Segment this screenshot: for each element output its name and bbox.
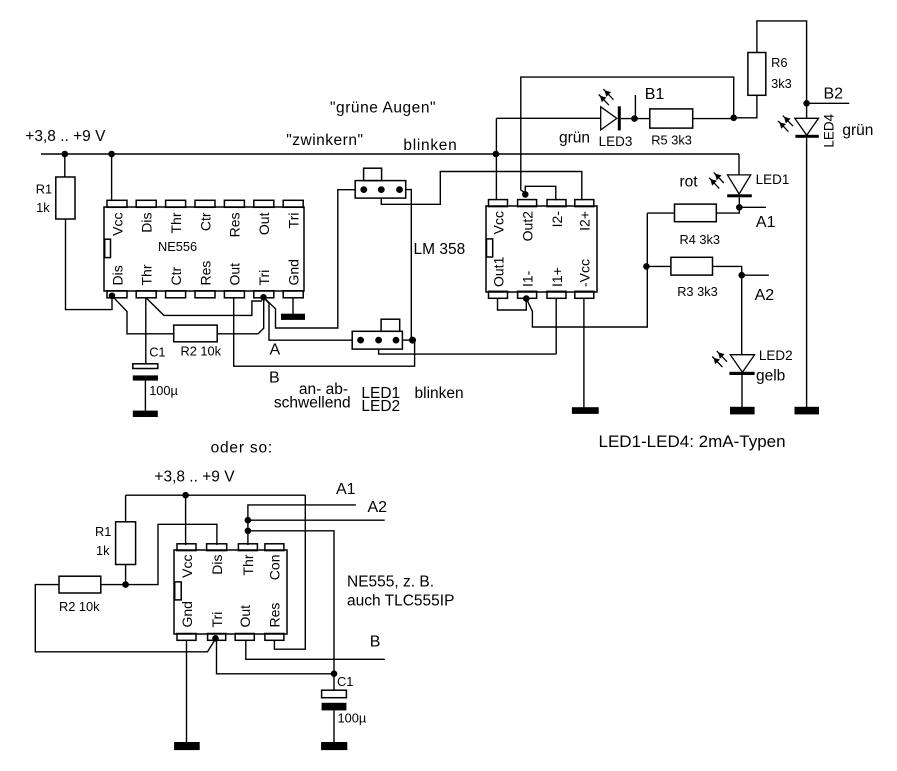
- label R1: [36, 182, 52, 197]
- label R6: [771, 55, 787, 70]
- label grün LED4: [842, 122, 873, 139]
- label R3 3k3: [677, 284, 718, 299]
- wire power rail lower: [126, 494, 306, 496]
- wire Thr riser to A1: [248, 505, 356, 545]
- svg-text:I1-: I1-: [519, 270, 535, 287]
- wire R6 top loop: [757, 21, 807, 119]
- svg-text:3k3: 3k3: [771, 76, 792, 91]
- wire R2 left to Tri: [35, 585, 215, 652]
- svg-text:A2: A2: [368, 499, 388, 516]
- label R4 3k3: [680, 232, 721, 247]
- label oder so:: [211, 440, 273, 457]
- label 1k: [36, 200, 50, 215]
- wire LED3 anode riser / LM358 Vcc: [495, 118, 497, 200]
- resistor R1 1k lower: [116, 522, 136, 565]
- node junction rail-Vcc LM358: [493, 151, 500, 158]
- resistor R2 10k lower: [59, 576, 101, 593]
- op-amp-timer IC U1 NE556 body: [104, 207, 304, 291]
- ground symbol C1 lower: [321, 742, 347, 750]
- svg-text:Thr: Thr: [240, 554, 256, 575]
- svg-text:C1: C1: [149, 344, 165, 359]
- wire Res to rail: [274, 495, 305, 649]
- jumper J2 pin dots: [357, 337, 399, 344]
- U3 bottom pin labels Gnd Tri Out Res: [179, 601, 283, 627]
- node junction Thr-C1: [245, 528, 252, 535]
- svg-text:Dis: Dis: [109, 265, 125, 285]
- svg-text:Vcc: Vcc: [109, 213, 125, 236]
- wire J2 middle pin to LM358 I1+: [379, 349, 557, 354]
- svg-text:Res: Res: [197, 261, 213, 286]
- label NE556: [158, 239, 197, 254]
- label grün LED3: [559, 130, 590, 147]
- ground symbol LED2: [730, 407, 755, 415]
- IC U1 bottom pins: [107, 291, 303, 298]
- wire node B2 stub: [807, 102, 850, 104]
- label LM 358: [414, 241, 466, 258]
- svg-text:I2-: I2-: [549, 211, 565, 228]
- node junction I1-: [523, 295, 530, 302]
- svg-text:Dis: Dis: [209, 555, 225, 575]
- svg-text:grün: grün: [559, 130, 590, 147]
- ground symbol -Vcc: [572, 407, 599, 414]
- wire node A2 line lower: [248, 519, 385, 521]
- svg-text:blinken: blinken: [403, 137, 457, 154]
- jumper J2 body: [352, 319, 402, 349]
- jumper J1 pin dots: [360, 186, 403, 193]
- svg-text:100µ: 100µ: [338, 711, 367, 726]
- label gelb: [756, 368, 785, 385]
- wire A2 node to LED2: [741, 275, 743, 355]
- svg-text:R2 10k: R2 10k: [181, 344, 222, 359]
- label node B2: [824, 86, 844, 103]
- wire Tri to node A: [264, 297, 353, 340]
- label LED1: [756, 172, 790, 187]
- svg-text:1k: 1k: [96, 543, 110, 558]
- capacitor C1 100µ upper: [133, 364, 158, 411]
- label 100µ upper: [149, 383, 178, 398]
- wire node A2 stub: [742, 274, 769, 276]
- label an- ab-: [299, 381, 348, 398]
- svg-text:blinken: blinken: [415, 385, 464, 402]
- wire R1 bottom lower: [125, 565, 127, 585]
- wire R2 right to Tri: [217, 299, 264, 334]
- node junction B2: [803, 100, 810, 107]
- label rot: [680, 174, 699, 191]
- resistor R2 10k upper: [174, 325, 218, 342]
- resistor R3 3k3: [671, 257, 713, 275]
- svg-text:R4 3k3: R4 3k3: [680, 232, 721, 247]
- LED LED2 gelb: [729, 355, 754, 408]
- svg-text:Ctr: Ctr: [197, 212, 213, 231]
- label R1 lower: [95, 524, 111, 539]
- node junction rail-R1: [62, 151, 69, 158]
- wire J1 middle pin to LM358 I2+: [381, 172, 582, 205]
- svg-text:Tri: Tri: [209, 612, 225, 628]
- timer IC U3 NE555 body: [174, 550, 287, 634]
- wire NE556 Gnd to ground: [292, 298, 294, 314]
- label node B1: [645, 86, 665, 103]
- svg-text:A1: A1: [756, 214, 776, 231]
- wire R5 right: [693, 118, 734, 120]
- node junction Tri NE555: [212, 635, 219, 642]
- svg-text:NE555, z. B.: NE555, z. B.: [347, 574, 434, 591]
- wire J1 right pin down: [406, 190, 412, 339]
- svg-text:A1: A1: [336, 481, 356, 498]
- svg-text:auch TLC555IP: auch TLC555IP: [347, 592, 454, 609]
- node junction rail-Vcc NE556: [108, 151, 115, 158]
- label node B lower: [370, 634, 381, 651]
- svg-text:LED2: LED2: [759, 348, 793, 363]
- label 1k lower: [96, 543, 110, 558]
- resistor R5 3k3: [650, 109, 693, 128]
- jumper J1 body: [355, 168, 406, 198]
- U3 top pin labels Vcc Dis Thr Con: [179, 554, 283, 580]
- svg-text:Vcc: Vcc: [179, 555, 195, 578]
- label R5 3k3: [651, 133, 692, 148]
- IC U1 top pin labels Vcc Dis Thr Ctr Res Out Tri: [109, 212, 301, 237]
- node junction Tri NE556: [260, 294, 267, 301]
- svg-text:LED2: LED2: [361, 398, 400, 415]
- svg-text:LED1-LED4: 2mA-Typen: LED1-LED4: 2mA-Typen: [599, 432, 786, 451]
- svg-text:R1: R1: [36, 182, 52, 197]
- wire R4 left: [647, 212, 674, 214]
- resistor R1 1k: [56, 177, 75, 219]
- svg-text:Thr: Thr: [139, 264, 155, 285]
- wire Out to node B lower: [246, 640, 385, 659]
- label NE555 z.B.: [347, 574, 434, 591]
- wire Thr to C1 link: [248, 531, 334, 672]
- svg-text:I1+: I1+: [549, 267, 565, 287]
- U3 bottom pins: [177, 634, 284, 641]
- wire NE556 Out to node B: [234, 298, 415, 367]
- wire rail to R1 lower: [125, 495, 127, 522]
- label LED1-LED4 2mA-Typen: [599, 432, 786, 451]
- wire R6 bottom to node: [734, 95, 757, 118]
- wire Thr to Tri: [146, 298, 262, 316]
- IC U1 bottom pin labels Dis Thr Ctr Res Out Tri Gnd: [109, 259, 301, 285]
- svg-text:Res: Res: [227, 213, 243, 238]
- label node A1: [756, 214, 776, 231]
- label schwellend: [274, 394, 351, 411]
- svg-text:R1: R1: [95, 524, 111, 539]
- wire Thr to C1 top: [145, 298, 147, 364]
- U2 top pin labels Vcc Out2 I2- I2+: [490, 211, 592, 242]
- node junction J-node: [409, 337, 416, 344]
- ground symbol C1 upper: [133, 411, 158, 417]
- node junction R1-R2 lower: [122, 581, 129, 588]
- svg-text:LED4: LED4: [822, 113, 837, 147]
- wire I1- to R3 R4: [526, 213, 647, 327]
- wire node B1 stub: [634, 95, 636, 119]
- label R2 10k lower: [59, 599, 100, 614]
- U2 bottom pins: [489, 291, 594, 298]
- svg-text:oder so:: oder so:: [211, 440, 273, 457]
- wire Tri down to C1: [216, 638, 335, 674]
- svg-text:Thr: Thr: [168, 212, 184, 233]
- label node A2: [755, 287, 775, 304]
- wire -Vcc to ground: [583, 298, 585, 407]
- svg-text:Out2: Out2: [519, 211, 535, 242]
- svg-text:Dis: Dis: [139, 213, 155, 233]
- ground symbol LED4: [795, 407, 820, 415]
- label node B: [269, 370, 280, 387]
- wire rail to R1 top: [64, 154, 66, 177]
- ground symbol NE556: [281, 314, 305, 320]
- svg-text:Out: Out: [227, 263, 243, 286]
- IC U1 top pins: [107, 200, 303, 207]
- wire R3 left: [646, 265, 671, 267]
- svg-text:Con: Con: [267, 555, 283, 581]
- ground symbol NE555: [174, 742, 200, 750]
- svg-text:100µ: 100µ: [149, 383, 178, 398]
- label LED3: [599, 134, 633, 149]
- resistor R4 3k3: [675, 204, 717, 222]
- label blinken: [403, 137, 457, 154]
- node junction Dis NE556: [109, 293, 116, 300]
- LED4 light arrows: [778, 116, 793, 132]
- LED LED1 rot: [727, 175, 752, 204]
- LED2 light arrows: [712, 351, 727, 367]
- svg-text:Out1: Out1: [490, 256, 506, 287]
- label LED2: [759, 348, 793, 363]
- node junction Out2: [522, 191, 529, 198]
- svg-text:B1: B1: [645, 86, 665, 103]
- label LED1 blinken: [361, 385, 463, 402]
- svg-text:LM 358: LM 358: [414, 241, 466, 258]
- resistor R6 3k3: [748, 53, 766, 96]
- node junction LED1-A1: [736, 204, 743, 211]
- wire Tri to jumper J1 left pin: [266, 190, 356, 328]
- node junction Thr-A2: [245, 517, 252, 524]
- U3 top pins: [177, 544, 284, 551]
- svg-text:B: B: [269, 370, 280, 387]
- svg-text:1k: 1k: [36, 200, 50, 215]
- svg-text:"zwinkern": "zwinkern": [286, 132, 363, 149]
- svg-text:+3,8 .. +9 V: +3,8 .. +9 V: [25, 128, 106, 145]
- label LED4 rotated: [822, 113, 837, 147]
- power rail +3,8..+9V label: [25, 128, 106, 145]
- svg-text:Out: Out: [237, 605, 253, 628]
- svg-text:A: A: [270, 341, 281, 358]
- label node A1 lower: [336, 481, 356, 498]
- node junction R5-R6: [730, 115, 737, 122]
- svg-text:C1: C1: [337, 674, 353, 689]
- svg-text:R5 3k3: R5 3k3: [651, 133, 692, 148]
- LED1 light arrows: [709, 172, 724, 188]
- node junction A2: [738, 272, 745, 279]
- wire J2 right pin stub: [402, 339, 409, 341]
- wire R3 right to LED2 line: [713, 266, 742, 272]
- svg-text:Gnd: Gnd: [286, 259, 302, 285]
- svg-text:grün: grün: [842, 122, 873, 139]
- label 100µ lower: [338, 711, 367, 726]
- wire rail to NE555 Vcc: [185, 495, 187, 545]
- label LED2 line2: [361, 398, 400, 415]
- wire I1+ down: [555, 298, 557, 354]
- node junction rail-Vcc NE555: [182, 492, 189, 499]
- svg-text:Gnd: Gnd: [179, 601, 195, 627]
- node junction R3 left: [643, 263, 650, 270]
- svg-text:NE556: NE556: [158, 239, 197, 254]
- wire Out1 to I1-: [498, 298, 527, 310]
- svg-text:R3 3k3: R3 3k3: [677, 284, 718, 299]
- wire LED3 anode: [496, 117, 600, 119]
- wire rail to NE556 Vcc: [111, 154, 113, 201]
- label 3k3 R6: [771, 76, 792, 91]
- svg-text:Res: Res: [267, 603, 283, 628]
- svg-text:+3,8 .. +9 V: +3,8 .. +9 V: [154, 469, 235, 486]
- svg-text:-Vcc: -Vcc: [577, 259, 593, 287]
- svg-text:Tri: Tri: [256, 270, 272, 286]
- svg-text:R2 10k: R2 10k: [59, 599, 100, 614]
- U2 bottom pin labels Out1 I1- I1+ -Vcc: [490, 256, 592, 287]
- svg-text:Tri: Tri: [286, 213, 302, 229]
- svg-text:B: B: [370, 634, 381, 651]
- wire Out2 riser grüne Augen: [521, 77, 734, 193]
- label C1 upper: [149, 344, 165, 359]
- wire R4 right to LED1 node: [716, 207, 739, 213]
- wire Out2 to I2-: [525, 186, 556, 200]
- LED LED3 grün: [601, 106, 650, 130]
- wire R2 right to Dis: [101, 524, 217, 584]
- wire R1 bottom to Dis pin: [66, 219, 113, 310]
- svg-text:"grüne Augen": "grüne Augen": [330, 100, 436, 117]
- op-amp U2 LM358 body: [486, 206, 597, 292]
- label node A: [270, 341, 281, 358]
- svg-text:gelb: gelb: [756, 368, 785, 385]
- svg-text:B2: B2: [824, 86, 844, 103]
- svg-text:R6: R6: [771, 55, 787, 70]
- svg-text:I2+: I2+: [577, 211, 593, 231]
- svg-text:LED3: LED3: [599, 134, 633, 149]
- svg-text:Out: Out: [256, 212, 272, 235]
- svg-text:rot: rot: [680, 174, 699, 191]
- wire Gnd to ground lower: [186, 640, 188, 742]
- svg-text:LED1: LED1: [756, 172, 790, 187]
- svg-text:A2: A2: [755, 287, 775, 304]
- wire Dis to R2 left: [112, 296, 174, 334]
- LED3 light arrows: [599, 89, 614, 105]
- label zwinkern: [286, 132, 363, 149]
- capacitor C1 100µ lower: [322, 674, 347, 743]
- label auch TLC555IP: [347, 592, 454, 609]
- label C1 lower: [337, 674, 353, 689]
- label R2 10k upper: [181, 344, 222, 359]
- wire node A1 stub: [739, 206, 766, 208]
- wire power rail top: [41, 153, 739, 155]
- node junction LED3-R5-B1: [631, 115, 638, 122]
- label grüne Augen: [330, 100, 436, 117]
- svg-text:schwellend: schwellend: [274, 394, 351, 411]
- U2 top pins: [489, 200, 594, 207]
- svg-text:Vcc: Vcc: [490, 211, 506, 234]
- LED LED4 grün: [795, 118, 819, 407]
- wire rail corner to LED1: [738, 154, 740, 176]
- label +3,8..+9V lower: [154, 469, 235, 486]
- label node A2 lower: [368, 499, 388, 516]
- node junction C1 lower: [331, 670, 338, 677]
- svg-text:Ctr: Ctr: [168, 267, 184, 286]
